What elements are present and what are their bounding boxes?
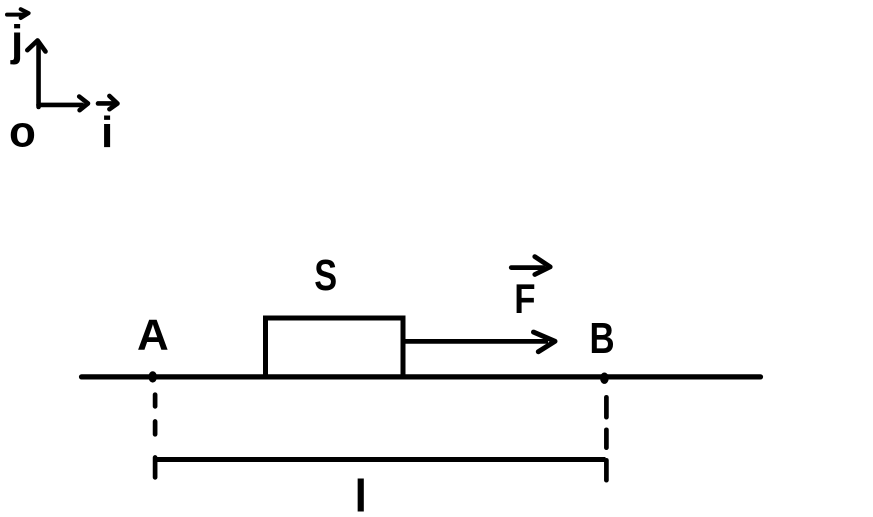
node dot B: [600, 373, 609, 384]
svg-text:l: l: [355, 470, 368, 517]
dashed projection line at A: [153, 395, 158, 478]
ground line: [82, 374, 761, 379]
vector arrow over j label: [7, 9, 29, 18]
svg-text:S: S: [314, 251, 337, 300]
svg-text:A: A: [137, 310, 169, 359]
vector arrow over i label: [98, 96, 118, 109]
y-axis arrow: [27, 40, 45, 107]
vector arrow over F label: [511, 257, 550, 275]
node dot A: [148, 371, 157, 382]
svg-text:F: F: [514, 276, 535, 323]
svg-text:o: o: [9, 107, 36, 156]
force vector F arrowhead: [534, 332, 556, 352]
svg-text:j: j: [10, 17, 23, 66]
measurement line for l: [154, 457, 606, 462]
svg-text:B: B: [590, 314, 615, 363]
force vector F shaft: [406, 339, 549, 344]
svg-text:i: i: [101, 108, 113, 157]
dashed projection line at B: [604, 397, 609, 480]
block S rectangle: [266, 318, 404, 377]
x-axis arrow: [39, 97, 89, 111]
